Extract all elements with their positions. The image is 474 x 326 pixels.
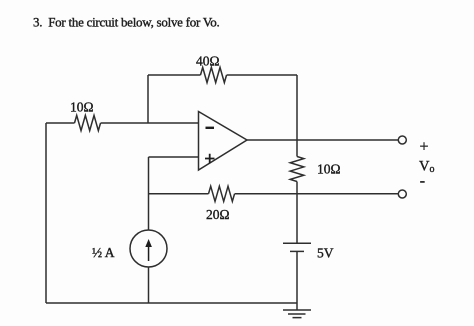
wire 20ohm branch right segment xyxy=(235,193,297,195)
svg-text:10Ω: 10Ω xyxy=(317,162,341,177)
svg-text:20Ω: 20Ω xyxy=(206,207,230,222)
wire above R4 xyxy=(296,140,298,157)
terminal bottom output circle xyxy=(398,190,406,198)
svg-text:½ A: ½ A xyxy=(92,245,115,260)
wire current source bottom to rail xyxy=(148,267,150,303)
wire op-amp output xyxy=(247,139,398,141)
wire from lower node to battery xyxy=(296,194,298,243)
wire input right segment to op-amp inverting input xyxy=(101,122,199,124)
wire 20ohm branch left segment xyxy=(149,193,209,195)
svg-text:40Ω: 40Ω xyxy=(196,54,220,69)
resistor R1 10ohm input zigzag xyxy=(75,115,101,130)
wire feedback top left segment xyxy=(148,74,201,76)
resistor R4 10ohm vertical zigzag xyxy=(290,157,304,182)
wire left vertical xyxy=(45,123,47,303)
svg-text:+: + xyxy=(420,138,429,155)
svg-text:10Ω: 10Ω xyxy=(70,100,94,115)
wire below R4 to lower output node xyxy=(296,182,298,194)
resistor R2 40ohm feedback zigzag xyxy=(201,67,227,82)
svg-text:3. For the circuit below, sol: 3. For the circuit below, solve for Vo. xyxy=(33,15,220,30)
op-amp plus symbol xyxy=(205,154,215,163)
op-amp minus symbol xyxy=(206,127,215,129)
op-amp U1 triangle xyxy=(199,112,248,171)
current source arrow xyxy=(145,239,152,261)
battery V1 short plate xyxy=(290,250,304,252)
wire feedback left vertical xyxy=(147,75,149,123)
current source I1 circle xyxy=(130,230,167,267)
wire feedback top right segment xyxy=(227,74,297,76)
wire battery bottom through rail to ground xyxy=(296,251,298,310)
wire vertical from plus node down to current source xyxy=(148,157,150,230)
wire bottom rail xyxy=(46,302,297,304)
svg-text:-: - xyxy=(420,173,425,190)
terminal top output circle xyxy=(398,136,406,144)
svg-text:5V: 5V xyxy=(317,246,334,261)
wire input left segment xyxy=(46,122,75,124)
wire lower output xyxy=(297,193,398,195)
wire feedback right vertical xyxy=(296,75,298,140)
battery V1 long plate xyxy=(283,242,311,244)
resistor R3 20ohm zigzag xyxy=(209,186,235,201)
wire non-inverting input xyxy=(149,156,199,158)
ground symbol xyxy=(283,310,311,318)
